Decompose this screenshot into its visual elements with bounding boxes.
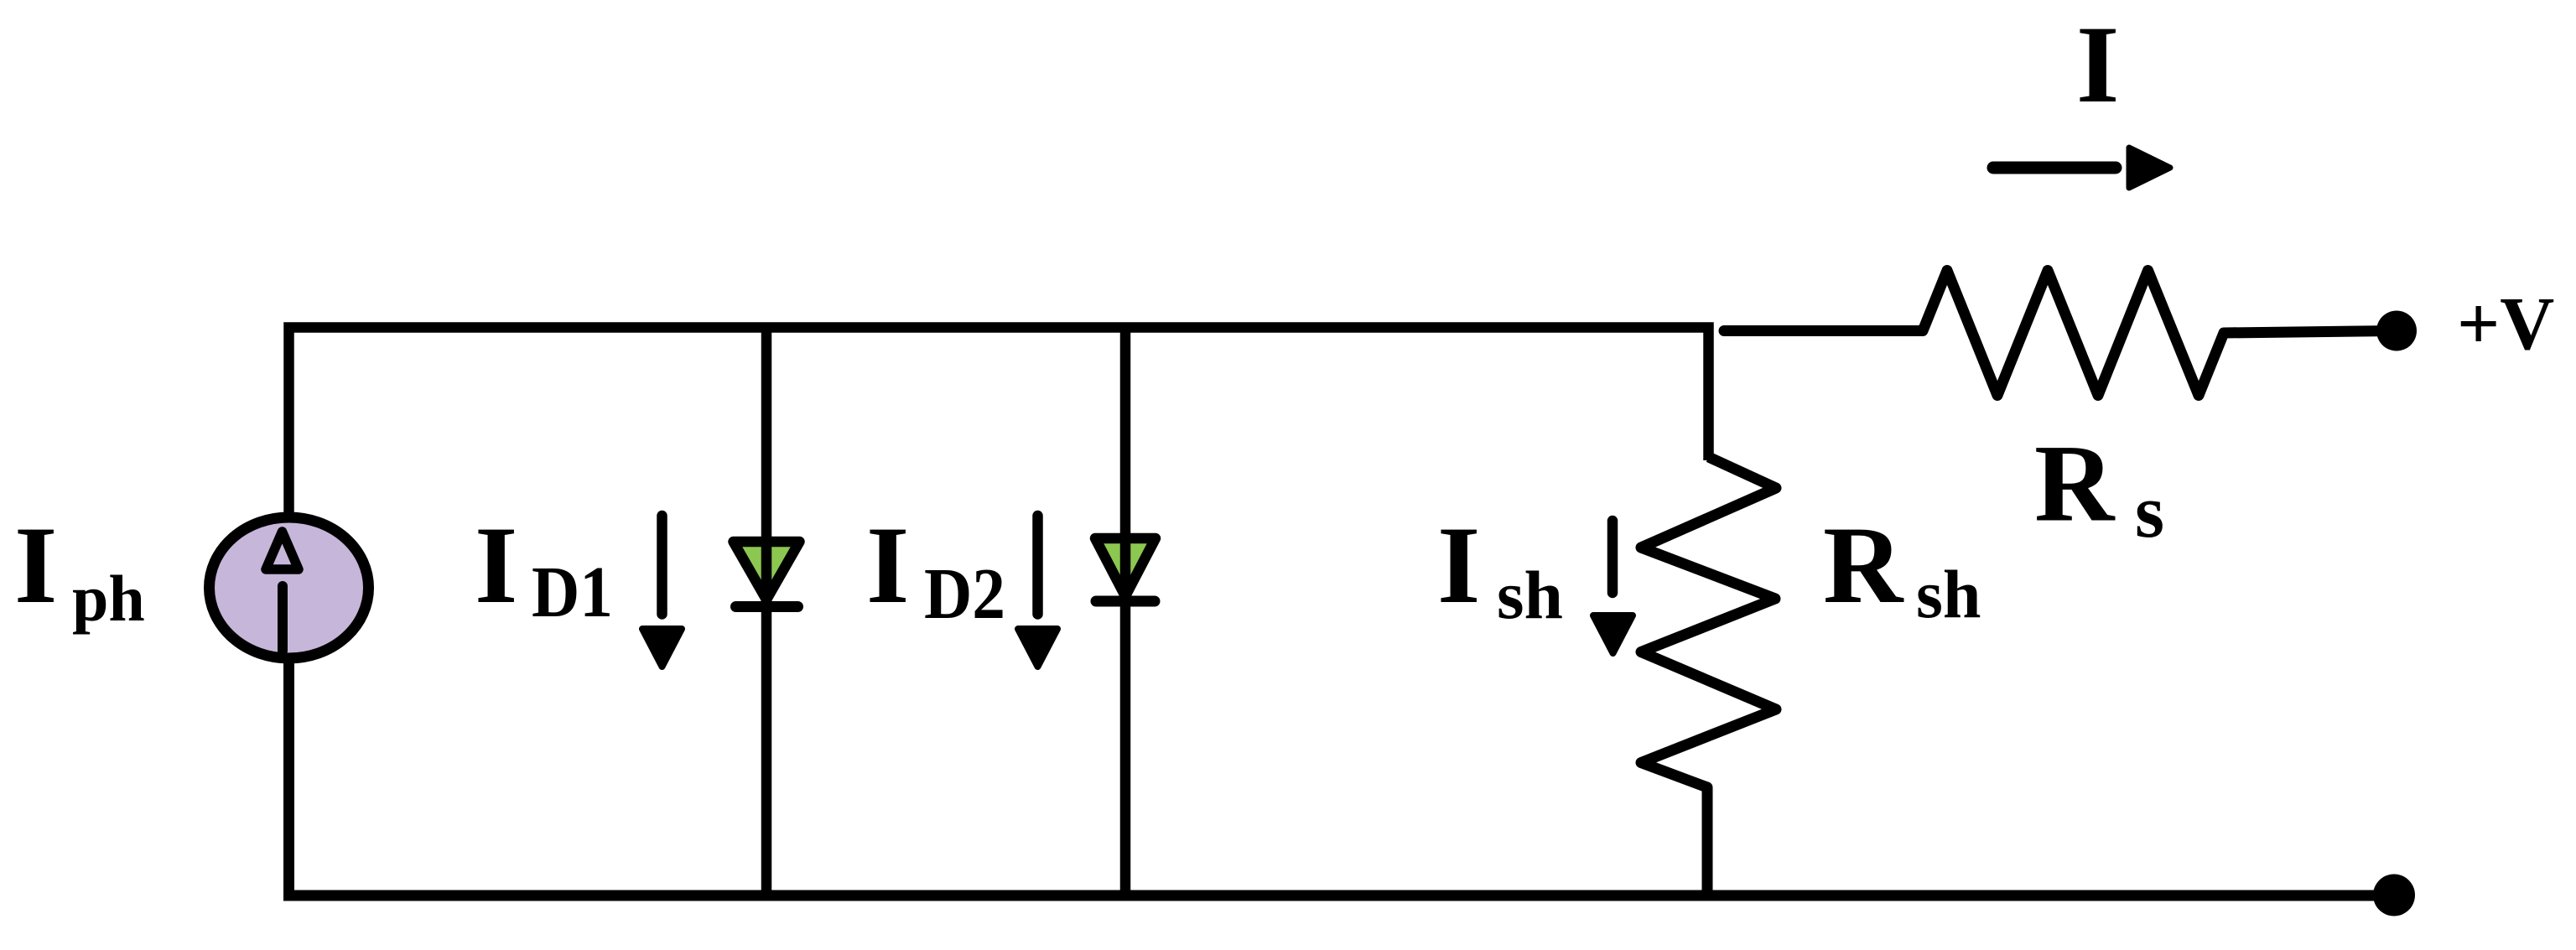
wire bottom rail with left riser from source (289, 656, 2395, 895)
resistor Rsh zigzag (1641, 457, 1776, 895)
svg-text:sh: sh (1916, 556, 1981, 632)
node terminal +V dot (2376, 311, 2417, 351)
diode D2 cathode bar (1096, 596, 1155, 607)
current arrow Ish stem (1607, 521, 1618, 593)
svg-text:ph: ph (72, 562, 145, 635)
current source arrow head (open triangle) (266, 532, 299, 569)
current arrow ID1 stem (657, 516, 667, 615)
svg-text:D2: D2 (924, 553, 1005, 634)
svg-text:R: R (1823, 503, 1904, 626)
current arrow ID2 stem (1032, 516, 1043, 615)
svg-text:I: I (866, 503, 909, 626)
wire over diode D2 (1120, 533, 1131, 604)
svg-text:D1: D1 (532, 551, 613, 632)
wire diode D2 branch vertical (1120, 328, 1131, 896)
diode D1 cathode bar (736, 601, 798, 612)
current arrow ID2 head (1018, 629, 1057, 667)
output current arrow I head (2129, 148, 2170, 188)
current source arrow stem (278, 586, 288, 651)
wire top bus: left drop to source, top rail, drop to Rsh (289, 328, 1709, 521)
node terminal bottom dot (2373, 875, 2415, 916)
svg-text:R: R (2034, 422, 2116, 545)
svg-text:I: I (475, 503, 517, 626)
svg-text:+V: +V (2457, 283, 2554, 366)
wire diode D1 branch vertical (761, 328, 772, 896)
current arrow Ish head (1593, 615, 1633, 653)
diode D2 triangle (1095, 538, 1156, 596)
current source Iph circle (210, 517, 369, 658)
svg-text:I: I (2076, 3, 2119, 126)
resistor Rs with leads: node wire, zigzag, wire to +V terminal (1724, 271, 2397, 396)
svg-text:I: I (1437, 503, 1480, 626)
svg-text:sh: sh (1497, 557, 1563, 633)
current arrow ID1 head (642, 629, 682, 667)
diode D1 triangle (734, 542, 800, 600)
svg-text:s: s (2135, 470, 2164, 553)
wire over diode D1 (761, 537, 772, 608)
svg-text:I: I (14, 503, 57, 626)
output current arrow I stem (1993, 162, 2116, 174)
